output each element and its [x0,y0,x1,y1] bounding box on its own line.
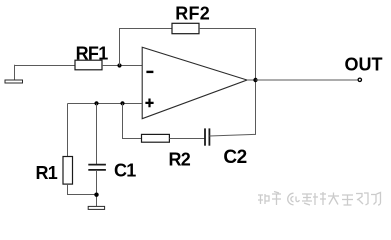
junction: R2 branch node [120,101,124,105]
wire: C2 right plate to output node [209,80,255,136]
svg-text:OUT: OUT [345,55,383,75]
svg-text:RF2: RF2 [175,3,210,23]
ground (bottom) [88,206,104,209]
svg-text:C1: C1 [114,161,136,181]
capacitor C2 [205,128,209,145]
op-amp U1 [142,47,247,119]
wire: ground to RF1 [14,65,75,67]
op-amp minus sign [146,71,153,73]
wire: RF2 right and down to output node [199,29,256,81]
capacitor C1 [88,165,106,170]
resistor R1 [63,157,73,185]
resistor RF2 [172,23,199,33]
op-amp plus sign [145,99,153,108]
svg-text:C2: C2 [223,147,246,168]
wire: non-inverting input network (horizontal) [68,103,143,105]
junction: inverting input node [117,63,121,67]
resistor RF1 [75,60,102,70]
ground (input, top-left) [5,65,23,83]
wire: C1 bottom lead to ground [96,170,98,206]
wire: R1 bottom to ground node [68,184,97,194]
wire: output node to OUT terminal [256,79,358,81]
wire: RF1 to inverting input [102,65,142,67]
watermark: 知乎 @选择大于努力 (drawn as light strokes) [258,192,381,206]
junction: ground node [94,193,98,197]
svg-text:RF1: RF1 [76,43,109,63]
junction: output node [253,78,257,82]
wire: C1 top lead [96,104,98,165]
wire: + node down and right to R2 [123,104,142,139]
svg-text:R2: R2 [169,150,191,170]
resistor R2 [142,134,170,142]
svg-text:R1: R1 [36,163,58,183]
wire: R2 to C2 [169,138,205,140]
wire: inverting node up and right to RF2 [120,29,173,66]
wire: elbow down to R1 [67,104,69,157]
junction: C1 top node [94,101,98,105]
OUT terminal (open circle) [358,78,361,81]
wire: op-amp output to node [247,79,256,81]
